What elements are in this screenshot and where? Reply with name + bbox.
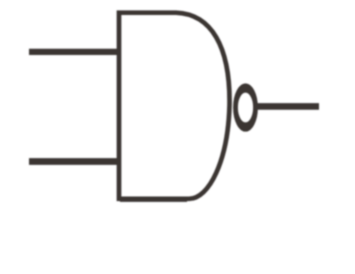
wire output Y — [256, 103, 319, 110]
inversion bubble — [236, 88, 256, 127]
gate bottom edge emphasis — [120, 196, 187, 201]
wire input A — [29, 49, 121, 55]
wire input B — [29, 158, 121, 165]
NAND gate U1 body — [119, 13, 230, 199]
